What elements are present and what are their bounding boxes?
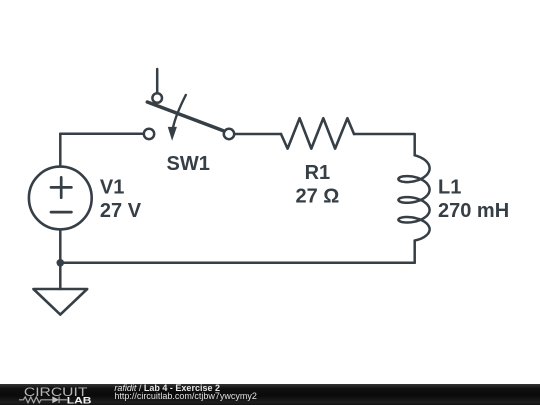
svg-text:L1: L1	[438, 177, 461, 199]
resistor R1	[281, 118, 354, 148]
wire inductor bottom to bottom rail corner	[413, 241, 416, 263]
node junction	[57, 259, 65, 267]
switch top terminal	[152, 93, 162, 103]
logo resistor squiggle + diode	[19, 397, 67, 403]
wire resistor to top-right corner down to inductor	[354, 134, 415, 155]
title text	[114, 384, 220, 392]
wire top rail to switch left terminal	[60, 133, 149, 136]
switch SW1	[144, 69, 234, 141]
wire switch top stub	[156, 69, 159, 93]
CircuitLab logo	[0, 384, 110, 405]
wire V1 bottom through junction to ground	[59, 229, 62, 289]
ground	[33, 289, 87, 315]
svg-text:27 V: 27 V	[100, 200, 142, 222]
svg-text:SW1: SW1	[167, 153, 210, 175]
wire switch right terminal to resistor	[229, 133, 281, 136]
svg-text:V1: V1	[100, 177, 124, 199]
inductor L1	[398, 155, 429, 240]
switch right terminal	[224, 129, 234, 139]
footer bar	[0, 384, 540, 405]
svg-text:27 Ω: 27 Ω	[295, 185, 339, 207]
switch arrow	[173, 95, 186, 127]
voltage source V1	[29, 167, 92, 230]
wire V1 top to top rail	[59, 134, 62, 167]
wire bottom rail	[60, 262, 414, 265]
svg-text:270 mH: 270 mH	[438, 200, 509, 222]
svg-text:LAB: LAB	[67, 395, 92, 405]
switch left terminal	[144, 129, 154, 139]
svg-text:R1: R1	[305, 162, 331, 184]
url text	[114, 392, 257, 401]
switch blade	[147, 102, 223, 131]
